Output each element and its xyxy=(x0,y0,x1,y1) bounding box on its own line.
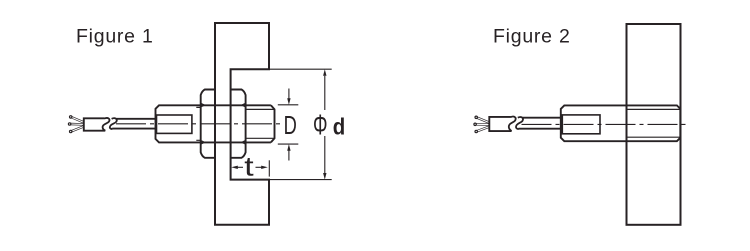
hex nut right outline (Figure 1) xyxy=(231,90,246,158)
panel (Figure 2) xyxy=(627,24,681,225)
break S-curve cable start (Figure 2) xyxy=(516,117,523,129)
wire fray (Figure 1) xyxy=(68,116,83,133)
dimension D extension lines (Figure 1) xyxy=(278,105,299,144)
dimension D arrow shafts xyxy=(288,89,290,161)
center line (Figure 1) xyxy=(116,123,284,125)
svg-text:t: t xyxy=(244,151,254,181)
break S-curve jacket end xyxy=(103,118,110,131)
dimension D arrowhead top xyxy=(287,98,290,105)
sensor body (Figure 1) xyxy=(156,105,201,142)
threaded barrel crest lines (Figure 1) xyxy=(201,105,271,142)
break S-curve jacket end (Figure 2) xyxy=(509,117,516,132)
thread root stub at body/nut gap xyxy=(196,107,200,140)
cable upper line (Figure 2) xyxy=(523,117,561,119)
glue hole lines (Figure 2) xyxy=(627,109,680,137)
dimension t line segments xyxy=(238,166,244,168)
cable jacket with break (Figure 2) xyxy=(489,117,511,131)
cable upper line (Figure 1) xyxy=(116,118,155,120)
svg-text:D: D xyxy=(284,110,297,140)
svg-text:d: d xyxy=(333,113,346,139)
sensor body (Figure 2) xyxy=(561,105,681,141)
thread root lines on exposed tip xyxy=(246,109,275,138)
wire fray (Figure 2) xyxy=(474,116,489,133)
hex nut left chamfer wedge upper xyxy=(201,103,206,107)
dimension D arrowhead bottom xyxy=(287,144,290,151)
hex nut right chamfer wedge upper xyxy=(241,103,246,107)
center line (Figure 2) xyxy=(522,123,690,125)
body inner rectangle (Figure 2) xyxy=(562,115,600,134)
dimension t arrowhead right xyxy=(261,166,268,169)
body inner rectangle xyxy=(157,115,192,133)
hex nut right chamfer wedge lower xyxy=(241,140,246,144)
cable lower line (Figure 1) xyxy=(112,128,155,130)
break S-curve cable start xyxy=(110,118,117,129)
svg-text:Φ: Φ xyxy=(313,110,328,142)
dimension Phi-d arrowhead top xyxy=(323,69,326,76)
svg-text:Figure 2: Figure 2 xyxy=(493,26,571,48)
cable jacket with break (Figure 1) xyxy=(84,118,105,130)
hex nut left outline (Figure 1) xyxy=(201,90,215,158)
dimension t extension line (Figure 1) xyxy=(268,160,270,176)
hex nut left chamfer wedge lower xyxy=(201,140,206,144)
cable lower line (Figure 2) xyxy=(518,128,560,130)
dimension t arrowhead left xyxy=(231,166,238,169)
dimension Phi-d extension lines (Figure 1) xyxy=(270,69,332,179)
dimension Phi-d line segments xyxy=(324,76,326,173)
svg-text:Figure 1: Figure 1 xyxy=(76,26,154,48)
tip end chamfers and face xyxy=(271,105,275,142)
panel with notch (Figure 1) xyxy=(215,23,269,225)
dimension Phi-d arrowhead bottom xyxy=(323,173,326,180)
